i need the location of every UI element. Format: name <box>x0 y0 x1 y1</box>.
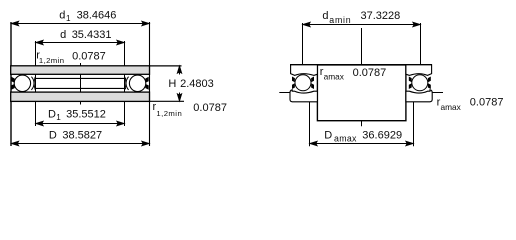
top washer left (right view) <box>291 65 318 76</box>
svg-text:amin: amin <box>329 15 351 25</box>
svg-text:2.4803: 2.4803 <box>180 78 214 90</box>
groove arc left of right ball <box>126 77 129 90</box>
extension line Damax right <box>413 102 415 147</box>
svg-text:0.0787: 0.0787 <box>470 97 504 109</box>
ball left (right view) <box>295 75 311 91</box>
shoulder line lower <box>35 87 127 89</box>
centerline lower segment <box>361 80 363 126</box>
shaft surface stub left <box>279 92 290 94</box>
svg-text:D: D <box>324 130 332 142</box>
label d 35.4331 <box>60 29 111 41</box>
ball left <box>14 75 30 91</box>
wedge lower-inner left ball (right view) <box>311 83 314 89</box>
central shaft block <box>317 65 406 121</box>
dimension damin line <box>303 22 421 26</box>
svg-text:1,2min: 1,2min <box>156 109 182 118</box>
groove arc 2 right of left ball <box>34 77 35 90</box>
bottom washer <box>11 92 150 101</box>
H arrow up <box>177 66 181 101</box>
label ramax 0.0787 (inside block) <box>320 66 387 81</box>
extension line damin right <box>420 23 422 65</box>
extension line damin left <box>302 23 304 65</box>
extension line inner right x=124.5 <box>124 41 126 126</box>
top surface line <box>290 64 432 66</box>
ball right (right view) <box>412 75 428 91</box>
H bottom extension line <box>150 100 184 102</box>
wedge lower-left <box>11 84 15 90</box>
wedge lower-outer left ball (right view) <box>292 83 295 89</box>
label D 38.5827 <box>49 130 102 142</box>
wedge upper-outer left ball (right view) <box>292 77 295 83</box>
label damin 37.3228 <box>322 10 400 25</box>
svg-text:1,2min: 1,2min <box>39 56 64 65</box>
label H 2.4803 <box>168 78 213 90</box>
svg-text:35.5512: 35.5512 <box>66 108 106 120</box>
label r1,2min 0.0787 (lower right of left view) <box>153 101 227 118</box>
svg-text:D: D <box>49 130 57 142</box>
extension line right outer x=149.5 <box>149 22 151 146</box>
svg-text:0.0787: 0.0787 <box>353 67 387 79</box>
dimension d1 line <box>11 21 150 25</box>
label D1 35.5512 <box>48 108 106 122</box>
bottom washer right (right view) <box>406 90 432 102</box>
svg-text:1: 1 <box>56 113 61 122</box>
svg-text:1: 1 <box>66 14 71 23</box>
wedge upper-inner right ball (right view) <box>409 77 412 83</box>
dimension D line <box>11 141 150 145</box>
svg-text:amax: amax <box>334 134 357 144</box>
svg-text:36.6929: 36.6929 <box>362 130 402 142</box>
dimension D1 line <box>36 121 125 125</box>
svg-text:38.4646: 38.4646 <box>77 10 117 22</box>
label r1,2min 0.0787 (upper) <box>36 50 106 66</box>
wedge lower-inner right ball (right view) <box>409 83 412 89</box>
top washer <box>11 66 150 75</box>
label Damax 36.6929 <box>324 130 402 144</box>
svg-text:amax: amax <box>324 72 345 82</box>
svg-text:35.4331: 35.4331 <box>72 29 112 41</box>
label ramax 0.0787 (outer right) <box>437 96 504 111</box>
dimension Damax line <box>310 141 414 145</box>
svg-text:d: d <box>322 10 328 22</box>
svg-text:37.3228: 37.3228 <box>361 10 401 22</box>
shoulder line upper <box>35 77 127 79</box>
wedge upper-left <box>11 77 15 83</box>
svg-text:38.5827: 38.5827 <box>62 130 102 142</box>
extension line inner left x=35.5 <box>35 41 37 126</box>
shaft surface stub right <box>432 92 443 94</box>
svg-text:d: d <box>60 29 66 41</box>
groove arc right of left ball <box>31 77 34 90</box>
wedge upper-right <box>145 77 149 83</box>
svg-text:0.0787: 0.0787 <box>72 50 106 62</box>
svg-text:0.0787: 0.0787 <box>193 102 227 114</box>
wedge lower-right <box>145 84 149 90</box>
H top extension line <box>150 65 182 67</box>
label d1 38.4646 <box>59 9 116 23</box>
centerline <box>80 63 82 105</box>
wedge upper-inner left ball (right view) <box>311 77 314 83</box>
wedge upper-outer right ball (right view) <box>428 77 431 83</box>
svg-text:D: D <box>48 108 56 120</box>
top washer right (right view) <box>406 65 432 76</box>
dimension d line <box>36 40 125 44</box>
ball right <box>129 75 145 91</box>
extension line Damax left <box>309 102 311 147</box>
centerline upper segment <box>361 28 363 67</box>
wedge lower-outer right ball (right view) <box>428 83 431 89</box>
bottom washer left (right view) <box>290 90 317 102</box>
extension line left outer x=11 <box>10 22 12 146</box>
svg-text:amax: amax <box>441 102 462 112</box>
groove arc 2 left of right ball <box>125 77 126 90</box>
svg-text:d: d <box>59 9 65 21</box>
svg-text:H: H <box>168 78 176 90</box>
